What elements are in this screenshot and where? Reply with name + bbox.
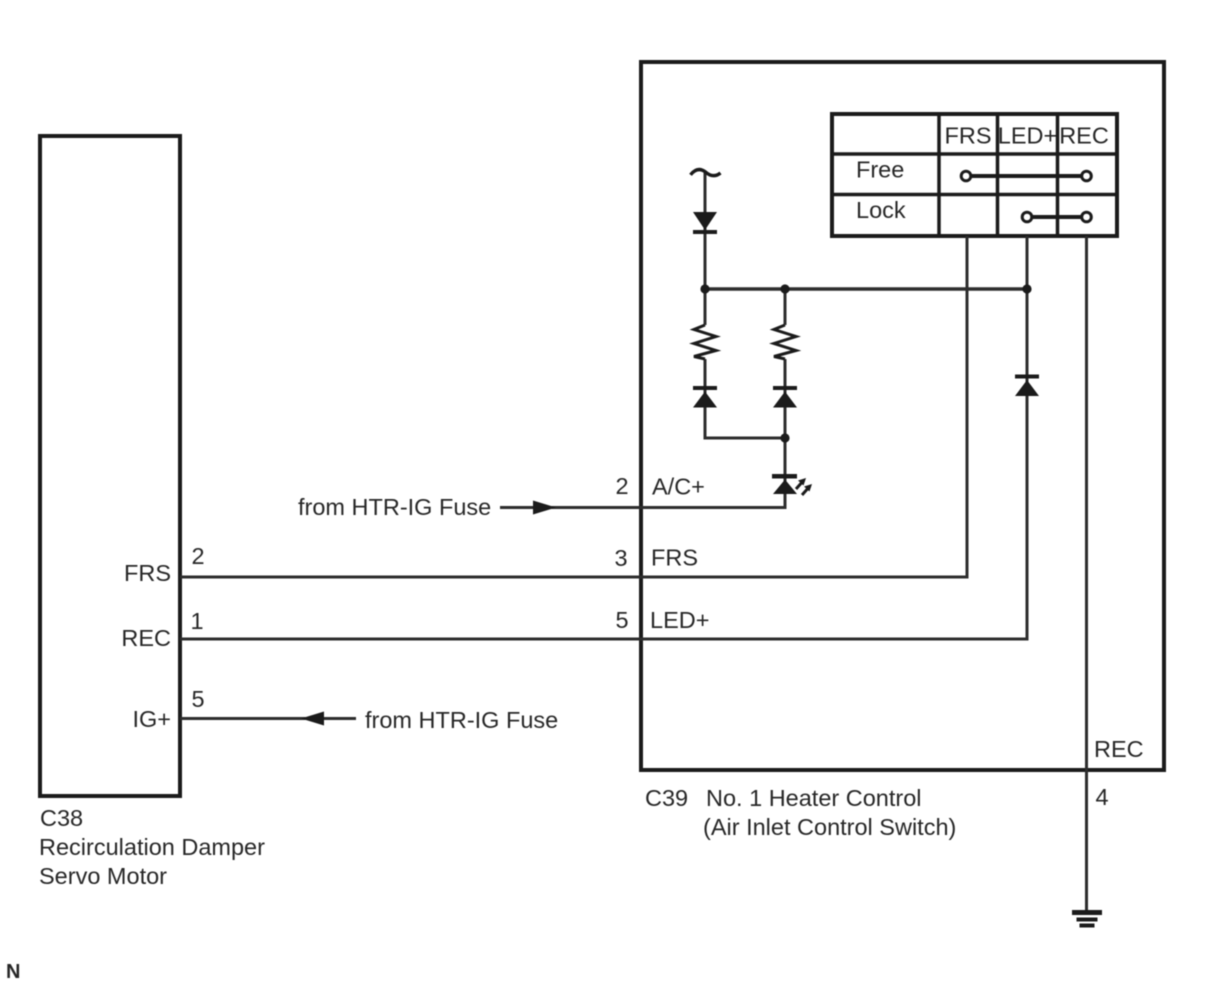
wire: from HTR-IG fuse into pin2 A/C+ bbox=[500, 479, 785, 508]
svg-text:4: 4 bbox=[1095, 784, 1108, 810]
wire: IG+ stub from C38 pin5 bbox=[180, 717, 356, 720]
svg-text:2: 2 bbox=[615, 473, 628, 499]
svg-text:5: 5 bbox=[191, 686, 204, 712]
table column line 3 bbox=[1056, 114, 1060, 236]
svg-text:LED+: LED+ bbox=[650, 607, 709, 633]
junction node at (785,289) bbox=[780, 284, 789, 293]
junction node at (785,438) bbox=[780, 433, 789, 442]
svg-text:C38: C38 bbox=[40, 805, 83, 831]
svg-text:LED+: LED+ bbox=[998, 123, 1057, 149]
svg-text:(Air Inlet Control Switch): (Air Inlet Control Switch) bbox=[703, 814, 956, 840]
svg-text:1: 1 bbox=[190, 608, 203, 634]
table column line 2 bbox=[996, 114, 1000, 236]
svg-text:FRS: FRS bbox=[651, 545, 698, 571]
svg-text:from HTR-IG Fuse: from HTR-IG Fuse bbox=[298, 494, 491, 520]
ground symbol bbox=[1072, 910, 1102, 915]
svg-text:No. 1 Heater Control: No. 1 Heater Control bbox=[706, 785, 922, 811]
wire: REC column down to ground bbox=[1085, 236, 1088, 912]
coil break squiggle at top of left branch bbox=[691, 170, 721, 176]
wire: left branch vertical with corner to junction bbox=[704, 172, 707, 325]
connector box C39 No.1 Heater Control bbox=[641, 62, 1164, 770]
svg-text:FRS: FRS bbox=[124, 560, 171, 586]
switch contact Free row: FRS to REC bbox=[972, 174, 1081, 178]
svg-text:2: 2 bbox=[191, 543, 204, 569]
switch contact Lock row: LED+ to REC bbox=[1033, 215, 1081, 219]
diode D5 pointing up on LED+ line bbox=[1015, 375, 1039, 379]
svg-text:Servo Motor: Servo Motor bbox=[39, 863, 167, 889]
svg-text:C39: C39 bbox=[645, 785, 688, 811]
connector box C38 Recirculation Damper Servo Motor bbox=[40, 136, 180, 796]
svg-text:IG+: IG+ bbox=[132, 706, 171, 732]
wire: REC net from C38 pin1 to table LED+ column bbox=[180, 236, 1027, 639]
table row line 2 bbox=[832, 193, 1117, 197]
arrowhead pointing right on fuse wire bbox=[533, 501, 556, 515]
diode D2 pointing up under R1 bbox=[693, 386, 717, 390]
table row line 1 bbox=[832, 152, 1117, 156]
wire: right branch vertical bbox=[784, 289, 787, 325]
wire: main horizontal bus y=289 bbox=[705, 287, 1027, 291]
switch table outer border bbox=[832, 114, 1117, 236]
svg-text:3: 3 bbox=[614, 545, 627, 571]
svg-text:Lock: Lock bbox=[856, 197, 906, 223]
resistor R1 zigzag bbox=[694, 325, 716, 359]
svg-text:A/C+: A/C+ bbox=[652, 474, 705, 500]
wire: FRS net from C38 pin2 to table FRS column bbox=[180, 236, 967, 577]
resistor R2 zigzag bbox=[774, 325, 796, 359]
table column line 1 bbox=[937, 114, 941, 236]
svg-text:from HTR-IG Fuse: from HTR-IG Fuse bbox=[365, 707, 558, 733]
arrowhead pointing left on IG+ wire bbox=[301, 712, 324, 726]
svg-text:N: N bbox=[6, 961, 20, 983]
svg-text:REC: REC bbox=[121, 625, 171, 651]
LED D4 on A/C+ branch bbox=[772, 474, 797, 479]
svg-text:Recirculation Damper: Recirculation Damper bbox=[39, 834, 265, 860]
svg-text:REC: REC bbox=[1094, 736, 1144, 762]
svg-text:FRS: FRS bbox=[945, 123, 992, 149]
diode D1 pointing down bbox=[693, 212, 717, 230]
LED emission arrows bbox=[796, 480, 804, 489]
junction node at (705,289) bbox=[700, 284, 709, 293]
svg-text:REC: REC bbox=[1059, 123, 1109, 149]
svg-text:Free: Free bbox=[856, 157, 904, 183]
svg-text:5: 5 bbox=[615, 607, 628, 633]
diode D3 pointing up under R2 bbox=[773, 386, 797, 390]
junction node at (1027,289) bbox=[1022, 284, 1031, 293]
